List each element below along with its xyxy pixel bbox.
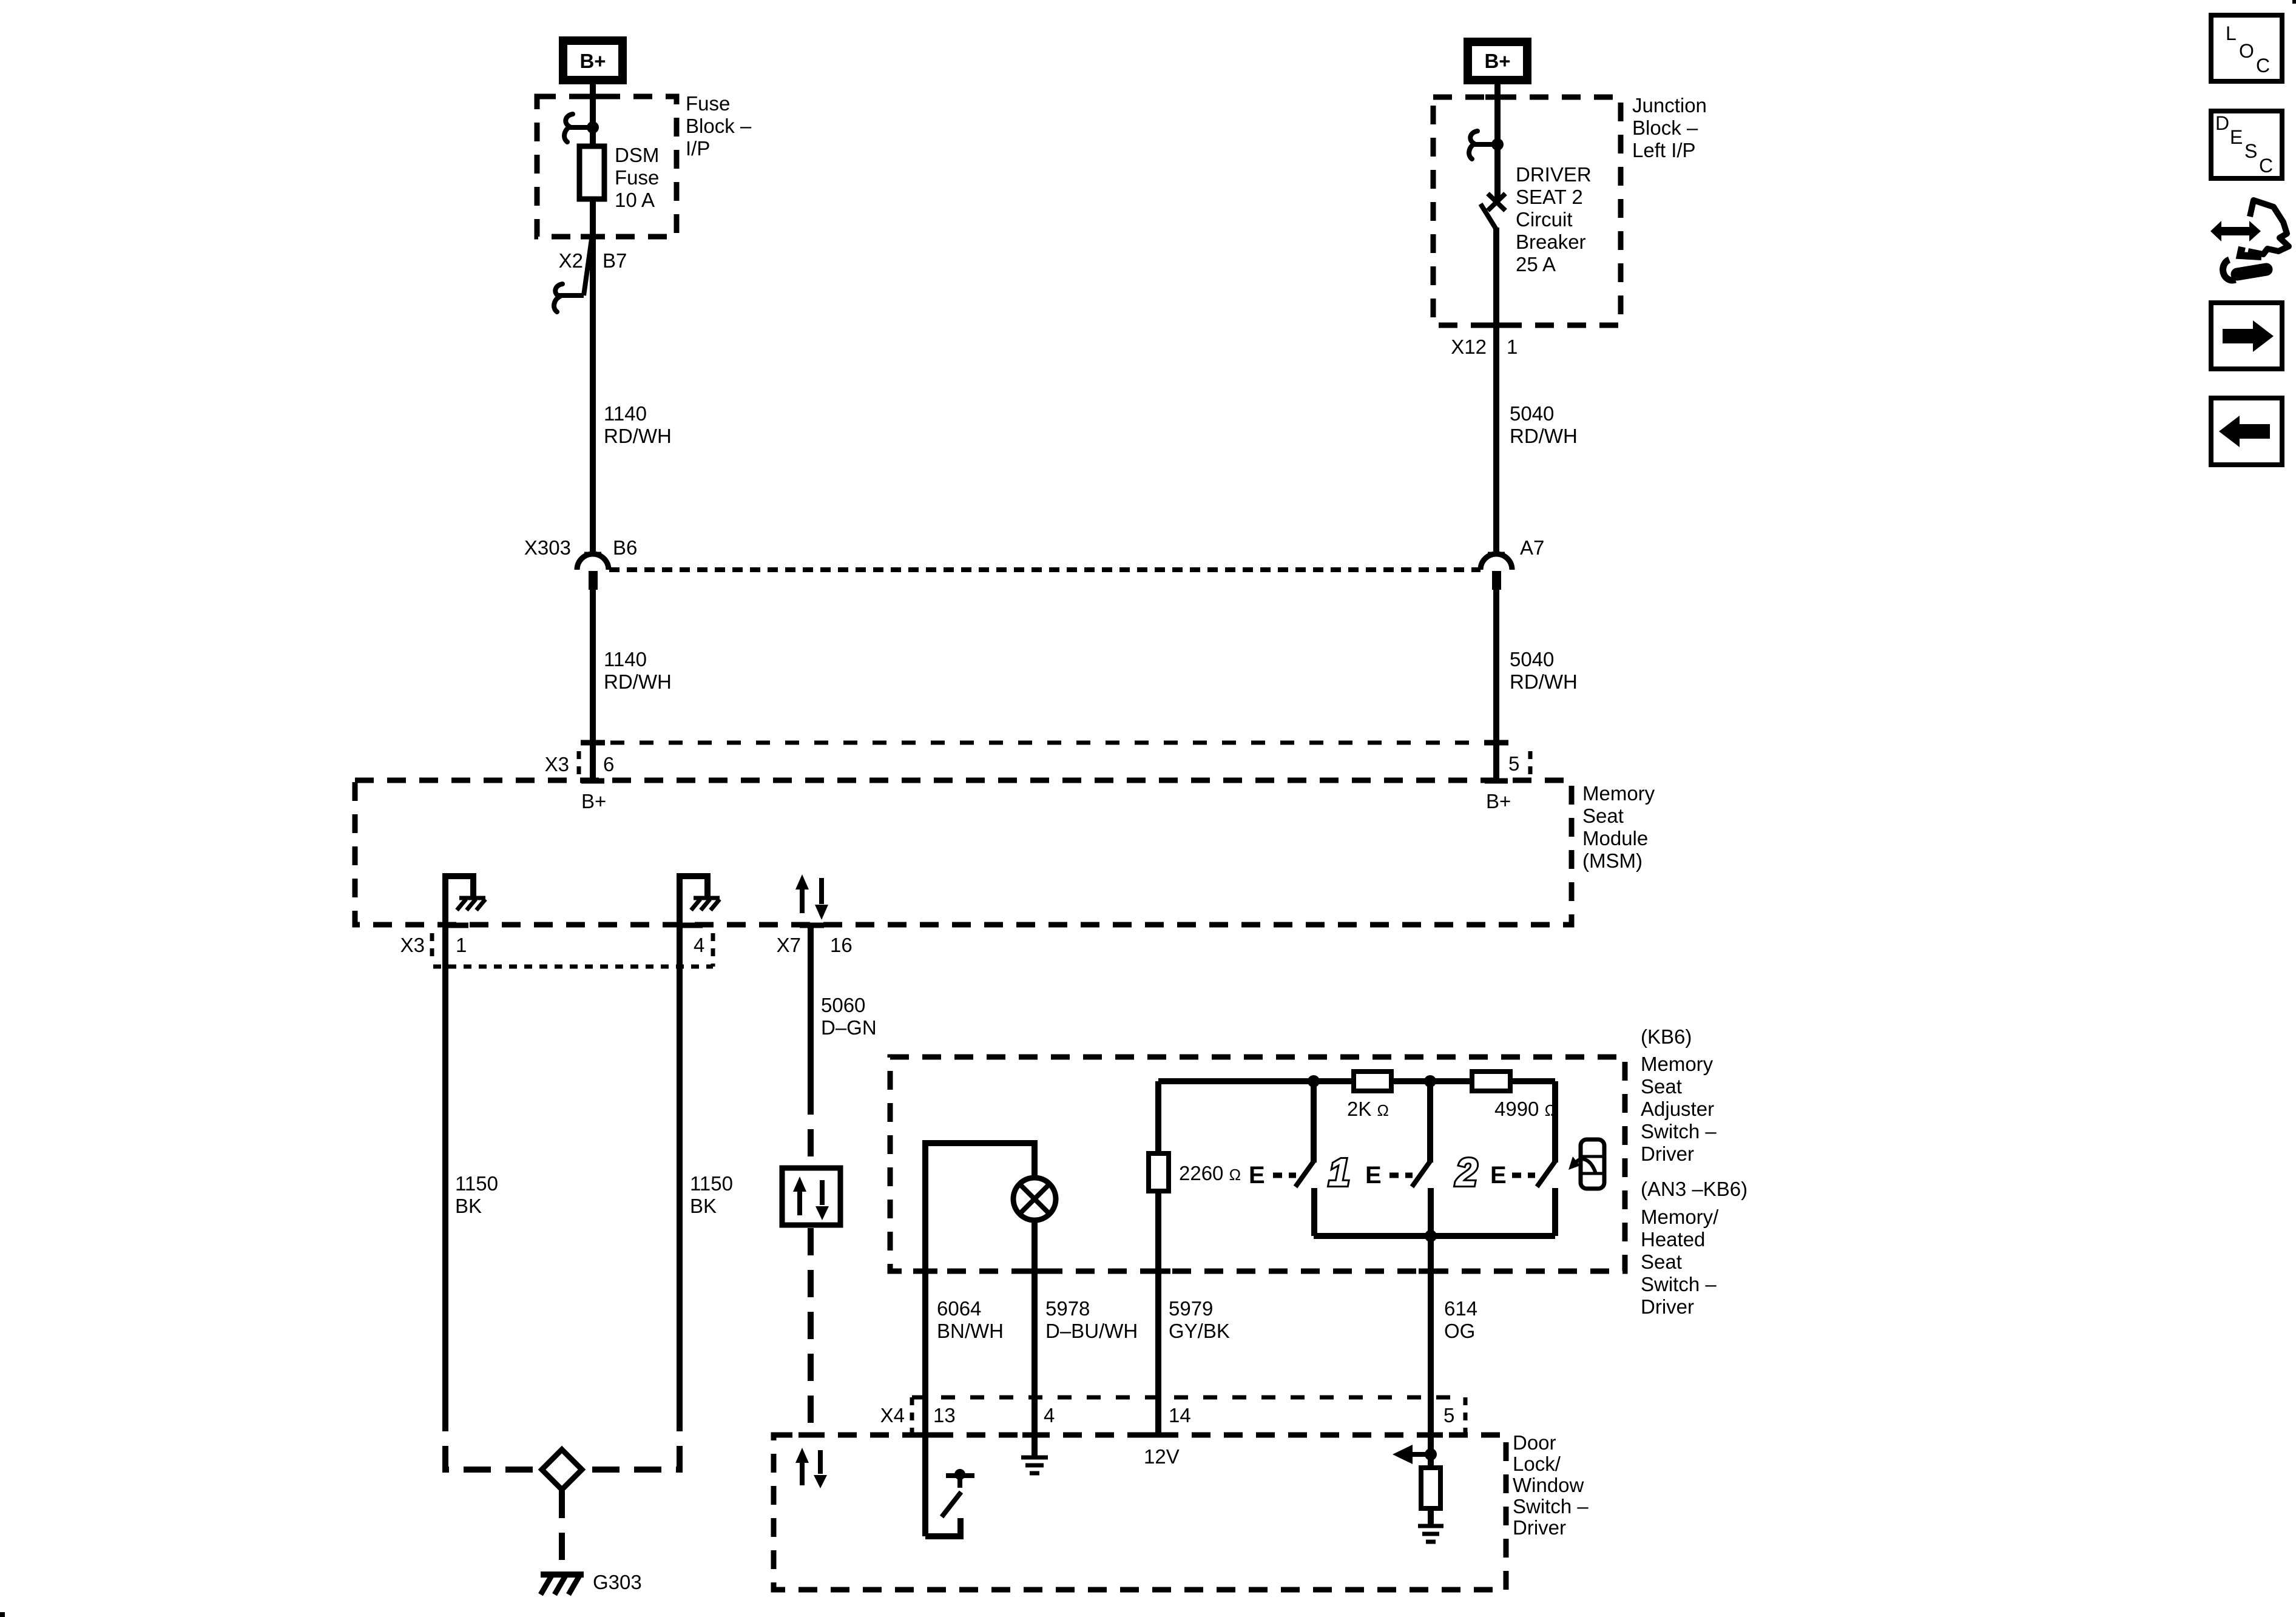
svg-text:A7: A7: [1520, 536, 1544, 559]
wire MSM pin4 to splice (1150 BK) solid part: [677, 925, 683, 1404]
X4 bracket tick right: [1464, 1397, 1468, 1435]
switch 2 blade: [1412, 1161, 1430, 1187]
switch 3 actuator E and dashes: [1490, 1162, 1535, 1189]
fuse DSM 10A: [579, 146, 604, 199]
MSM pin 4 exit tick: [677, 923, 703, 928]
svg-text:G303: G303: [593, 1571, 642, 1593]
label X12 / 1: [1451, 336, 1518, 358]
switch bottom bus: [1314, 1233, 1555, 1239]
svg-text:5979: 5979: [1169, 1297, 1213, 1320]
label DRIVER SEAT 2 Circuit Breaker 25 A: [1516, 163, 1592, 275]
svg-text:I/P: I/P: [686, 137, 710, 160]
resistor 2260 ohm: [1149, 1153, 1169, 1191]
connector X3 row dashed line: [581, 741, 1499, 745]
wire 5978 down to ground: [1032, 1271, 1038, 1456]
svg-text:B+: B+: [579, 50, 606, 72]
svg-text:Fuse: Fuse: [686, 92, 730, 115]
switch 3 feed wire (right corner): [1552, 1081, 1558, 1163]
svg-text:Seat: Seat: [1641, 1251, 1682, 1273]
label wire 5040 RD/WH (lower): [1510, 648, 1578, 693]
door lever switch blade: [942, 1492, 961, 1517]
MSM pin 1 exit tick: [443, 923, 468, 928]
svg-text:C: C: [2259, 155, 2273, 177]
svg-text:Heated: Heated: [1641, 1228, 1705, 1251]
svg-text:Seat: Seat: [1582, 805, 1624, 827]
svg-text:S: S: [2244, 140, 2257, 162]
svg-text:6: 6: [603, 753, 614, 775]
svg-text:Memory: Memory: [1582, 782, 1655, 805]
svg-text:Breaker: Breaker: [1516, 231, 1586, 253]
svg-text:E: E: [1490, 1162, 1507, 1189]
label wire 1140 RD/WH (lower): [604, 648, 672, 693]
svg-text:BN/WH: BN/WH: [937, 1320, 1004, 1342]
label wire 1140 RD/WH (upper): [604, 402, 672, 447]
svg-text:D–BU/WH: D–BU/WH: [1045, 1320, 1138, 1342]
svg-text:BK: BK: [690, 1195, 717, 1217]
svg-text:Driver: Driver: [1513, 1516, 1566, 1539]
X4 bracket tick left: [910, 1397, 914, 1435]
junction dot switch 2 tap: [1424, 1075, 1436, 1087]
svg-text:X3: X3: [545, 753, 569, 775]
svg-text:B+: B+: [1486, 790, 1511, 812]
wire 6064 down to door switch: [922, 1271, 928, 1536]
svg-text:4990 Ω: 4990 Ω: [1494, 1098, 1556, 1120]
X3 bottom bracket dotted: [432, 933, 713, 967]
wire 614 from bus down: [1428, 1236, 1434, 1454]
MSM pin 5 entry tick: [1485, 778, 1508, 784]
label 5979 GY/BK: [1169, 1297, 1230, 1342]
resistor 4990 ohm: [1472, 1072, 1510, 1091]
svg-text:Fuse: Fuse: [615, 166, 659, 189]
wire crossing ticks at box edges: [581, 96, 1510, 1435]
svg-text:Door: Door: [1513, 1431, 1556, 1454]
svg-text:X7: X7: [777, 934, 801, 956]
svg-text:(AN3 –KB6): (AN3 –KB6): [1641, 1178, 1747, 1200]
svg-text:D: D: [2215, 112, 2229, 134]
switch ladder top wire: [1158, 1078, 1555, 1084]
svg-text:5060: 5060: [821, 994, 865, 1016]
svg-text:BK: BK: [455, 1195, 482, 1217]
wire splice to G303: [559, 1491, 565, 1573]
svg-text:RD/WH: RD/WH: [1510, 425, 1578, 447]
svg-text:GY/BK: GY/BK: [1169, 1320, 1230, 1342]
connector dashed line X303 to A7: [609, 567, 1481, 572]
svg-text:X2: X2: [559, 249, 583, 272]
svg-text:614: 614: [1444, 1297, 1477, 1320]
switch 1 lower contact wire: [1311, 1188, 1317, 1236]
wire 5060 dashed lower: [808, 1228, 814, 1435]
svg-text:5040: 5040: [1510, 402, 1554, 425]
svg-text:DSM: DSM: [615, 144, 659, 166]
svg-text:Seat: Seat: [1641, 1075, 1682, 1098]
corner speck top-right: [2292, 0, 2296, 4]
switch 1 upper contact wire: [1311, 1081, 1317, 1163]
wire dot to resistor: [1428, 1454, 1434, 1469]
svg-text:Block –: Block –: [1632, 116, 1698, 139]
indicator lamp loop wire: [925, 1143, 1035, 1271]
svg-text:B7: B7: [603, 249, 627, 272]
circuit breaker contact X: [1488, 194, 1505, 211]
label Door Lock/ Window Switch - Driver: [1513, 1431, 1589, 1539]
label Junction Block - Left I/P: [1632, 94, 1707, 161]
label 1150 BK (left): [455, 1172, 498, 1217]
power feed B+ box (left, fuse block): [563, 41, 623, 80]
X3 row bracket dots right: [1528, 751, 1533, 775]
svg-text:1: 1: [1328, 1150, 1350, 1194]
junction dot at breaker clip: [1491, 138, 1504, 150]
svg-text:Adjuster: Adjuster: [1641, 1098, 1714, 1120]
svg-text:2: 2: [1455, 1150, 1477, 1194]
circuit breaker blade: [1481, 204, 1496, 229]
label (KB6) Memory Seat Adjuster Switch - Driver: [1641, 1025, 1717, 1165]
switch 3 lower contact wire: [1552, 1188, 1558, 1236]
connector X4 row dotted line: [912, 1396, 1465, 1400]
svg-text:Lock/: Lock/: [1513, 1453, 1561, 1475]
door lever switch pivot dot: [954, 1469, 965, 1480]
svg-text:5040: 5040: [1510, 648, 1554, 670]
Door Lock/Window Switch dashed box: [774, 1435, 1506, 1590]
svg-text:X3: X3: [400, 934, 425, 956]
svg-text:5: 5: [1443, 1404, 1454, 1426]
svg-text:14: 14: [1169, 1404, 1191, 1426]
svg-text:Switch –: Switch –: [1513, 1495, 1589, 1517]
MSM internal ground hook (pin 4): [680, 876, 707, 925]
svg-text:X12: X12: [1451, 336, 1487, 358]
resistor 2260 ohm wire top: [1155, 1081, 1161, 1155]
junction dot switch 1 tap: [1308, 1075, 1320, 1087]
door lever switch bar: [946, 1473, 974, 1478]
ground G303 symbol: [541, 1575, 584, 1595]
switch 3 blade: [1537, 1161, 1555, 1187]
wire MSM pin1 dashed part to splice: [445, 1404, 544, 1470]
svg-text:O: O: [2239, 40, 2254, 62]
svg-text:2260 Ω: 2260 Ω: [1179, 1162, 1241, 1184]
svg-text:12V: 12V: [1144, 1445, 1180, 1468]
svg-text:RD/WH: RD/WH: [604, 670, 672, 693]
label (AN3 -KB6) Memory/Heated Seat Switch - Driver: [1641, 1178, 1747, 1318]
label X3 / 6 (top row): [545, 753, 615, 775]
left arrow (pin 5 feed out): [1393, 1445, 1431, 1464]
svg-text:L: L: [2226, 22, 2237, 44]
label 1150 BK (right): [690, 1172, 733, 1217]
wire 5979 down from 2260 resistor: [1155, 1191, 1161, 1435]
MSM internal up/down arrows (pin 16): [795, 874, 828, 920]
indicator lamp: [1013, 1178, 1056, 1220]
power feed B+ box (right, junction block): [1468, 42, 1527, 80]
earth ground (pin 5): [1418, 1526, 1443, 1542]
svg-text:Switch –: Switch –: [1641, 1273, 1717, 1295]
svg-text:RD/WH: RD/WH: [604, 425, 672, 447]
svg-text:1: 1: [1507, 336, 1518, 358]
svg-text:5: 5: [1508, 752, 1519, 775]
svg-text:B+: B+: [1484, 50, 1510, 72]
wire B+ to circuit breaker: [1494, 84, 1501, 200]
svg-text:B+: B+: [581, 790, 606, 812]
door lever switch stub: [957, 1476, 962, 1488]
svg-text:E: E: [1365, 1162, 1382, 1189]
wire 5979 entry tick (12V): [1146, 1433, 1170, 1438]
chassis ground symbol (pin 1): [457, 898, 485, 910]
wire resistor to ground: [1428, 1507, 1434, 1525]
label wire 5040 RD/WH (upper): [1510, 402, 1578, 447]
wire MSM pin1 to splice (1150 BK) solid part: [442, 925, 448, 1404]
svg-text:D–GN: D–GN: [821, 1016, 877, 1039]
door box up/down arrows: [795, 1448, 827, 1488]
svg-text:4: 4: [694, 934, 704, 956]
MSM pin 16 exit tick: [800, 923, 824, 928]
resistor (pin 5): [1421, 1468, 1440, 1508]
junction dot on bus (614 tap): [1425, 1230, 1437, 1242]
switch 2 upper contact wire: [1427, 1081, 1433, 1163]
icon arrow right: [2211, 303, 2282, 369]
label memory position 2 (outline digit): [1455, 1150, 1477, 1194]
seat icon: [1568, 1139, 1604, 1189]
switch 1 blade: [1295, 1161, 1314, 1187]
icon LOC: [2211, 15, 2282, 81]
label 6064 BN/WH: [937, 1297, 1004, 1342]
MSM internal ground hook (pin 1): [445, 876, 473, 925]
svg-text:1140: 1140: [604, 402, 647, 425]
svg-text:Window: Window: [1513, 1474, 1584, 1496]
resistor 2K ohm: [1354, 1072, 1391, 1091]
svg-text:2K Ω: 2K Ω: [1347, 1098, 1389, 1120]
X3 row bracket dots left: [577, 751, 581, 777]
fuse block dashed box: [537, 96, 677, 237]
svg-text:25 A: 25 A: [1516, 253, 1556, 275]
svg-text:B6: B6: [613, 536, 637, 559]
label X7 / 16: [777, 934, 853, 956]
label 5978 D-BU/WH: [1045, 1297, 1138, 1342]
svg-text:X303: X303: [524, 536, 571, 559]
up/down arrow box (in-line symbol): [782, 1168, 840, 1225]
connector X12 pin 1 tick: [1485, 323, 1510, 328]
icon DESC: [2211, 111, 2282, 178]
svg-text:(MSM): (MSM): [1582, 849, 1643, 872]
label 5060 D-GN: [821, 994, 877, 1039]
wire B+ to DSM fuse: [590, 84, 596, 147]
label memory position 1 (outline digit): [1328, 1150, 1350, 1194]
svg-text:Junction: Junction: [1632, 94, 1707, 116]
door lever switch hook: [925, 1518, 961, 1536]
svg-text:C: C: [2256, 55, 2270, 76]
wire X303 to MSM pin 6: [590, 590, 596, 780]
icon arrow left: [2211, 398, 2282, 465]
label X4 / 13: [880, 1404, 956, 1426]
Memory Seat Adjuster Switch dashed box: [890, 1057, 1625, 1271]
label Memory Seat Module (MSM): [1582, 782, 1655, 872]
MSM pin 6 entry tick: [581, 778, 604, 784]
svg-text:Switch –: Switch –: [1641, 1120, 1717, 1143]
switch 2 lower contact wire: [1428, 1188, 1434, 1236]
svg-text:RD/WH: RD/WH: [1510, 670, 1578, 693]
svg-text:10 A: 10 A: [615, 189, 655, 211]
label Fuse Block - I/P: [686, 92, 752, 160]
svg-text:Left I/P: Left I/P: [1632, 139, 1696, 161]
svg-text:Block –: Block –: [686, 115, 752, 137]
svg-text:6064: 6064: [937, 1297, 981, 1320]
svg-text:Memory: Memory: [1641, 1053, 1714, 1075]
label 614 OG: [1444, 1297, 1477, 1342]
junction dot (pin 5): [1425, 1448, 1437, 1460]
svg-text:4: 4: [1044, 1404, 1055, 1426]
svg-text:DRIVER: DRIVER: [1516, 163, 1592, 186]
wire DSM fuse to X303 (circuit 1140): [590, 198, 596, 554]
svg-text:SEAT 2: SEAT 2: [1516, 186, 1583, 208]
junction block dashed box: [1433, 97, 1621, 325]
wire lamp down (5978) inside box: [1032, 1220, 1038, 1271]
svg-text:OG: OG: [1444, 1320, 1475, 1342]
breaker clip terminal hook: [1469, 131, 1497, 159]
X3 pin 5 tick: [1484, 740, 1508, 746]
wire X7 pin16 solid part (circuit 5060): [808, 925, 814, 1087]
svg-text:1140: 1140: [604, 648, 647, 670]
svg-text:Driver: Driver: [1641, 1295, 1694, 1318]
wire A7 to MSM pin 5: [1493, 590, 1499, 780]
svg-text:X4: X4: [880, 1404, 905, 1426]
svg-text:Memory/: Memory/: [1641, 1206, 1719, 1228]
switch 1 actuator E and dashes: [1249, 1162, 1296, 1189]
svg-text:1150: 1150: [690, 1172, 733, 1195]
corner speck bottom-left: [0, 1612, 5, 1617]
fuse clip terminal hook: [564, 114, 593, 142]
svg-text:1: 1: [456, 934, 467, 956]
svg-text:16: 16: [830, 934, 853, 956]
wire breaker to X12: [1493, 228, 1499, 554]
wire 5060 dashed upper: [808, 1087, 814, 1165]
inline connector X303 terminal B6: [524, 536, 637, 590]
svg-text:(KB6): (KB6): [1641, 1025, 1692, 1048]
earth ground (pin 4): [1021, 1457, 1048, 1473]
label X3 / 1 / 4 (bottom row): [400, 934, 705, 956]
svg-text:13: 13: [933, 1404, 956, 1426]
X3 pin 6 tick: [581, 740, 605, 746]
connector X2 terminal B7 (pass-through): [554, 239, 627, 312]
svg-text:E: E: [1249, 1162, 1265, 1189]
Memory Seat Module dashed box: [355, 780, 1572, 925]
svg-text:5978: 5978: [1045, 1297, 1090, 1320]
junction dot at fuse clip: [587, 121, 599, 133]
svg-text:1150: 1150: [455, 1172, 498, 1195]
svg-text:Module: Module: [1582, 827, 1648, 849]
icon wrench/part (service info): [2210, 200, 2289, 280]
splice diamond: [542, 1450, 582, 1490]
inline connector A7: [1481, 536, 1544, 590]
svg-text:Driver: Driver: [1641, 1143, 1694, 1165]
svg-text:E: E: [2230, 126, 2243, 148]
label DSM Fuse 10 A: [615, 144, 659, 211]
chassis ground symbol (pin 4): [691, 898, 720, 910]
wire MSM pin4 dashed part to splice: [579, 1404, 680, 1470]
switch 2 actuator E and dashes: [1365, 1162, 1413, 1189]
svg-text:Circuit: Circuit: [1516, 208, 1573, 231]
